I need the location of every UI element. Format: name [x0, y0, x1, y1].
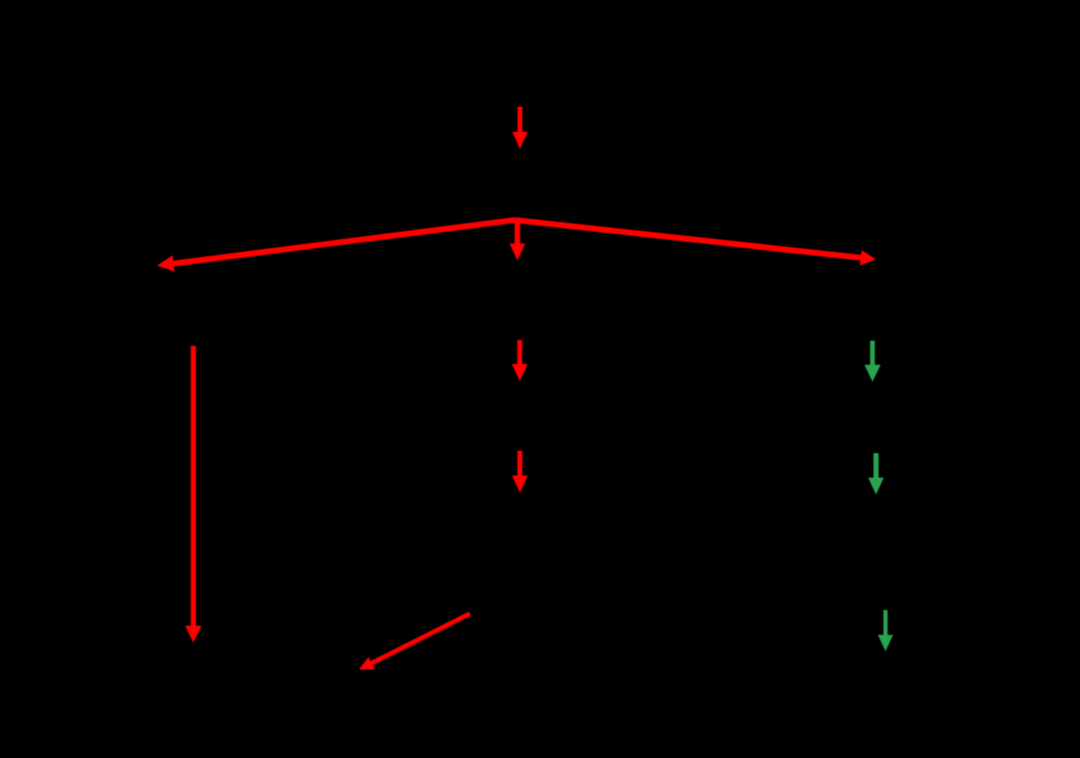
wire arrow left column long (red): [185, 346, 201, 643]
wire arrow fork center drop (red): [510, 219, 526, 261]
wire arrow fork right branch (red): [515, 220, 876, 266]
wire arrow top-center (red, down): [512, 107, 528, 149]
wire arrow center column upper (red): [512, 340, 528, 381]
wire arrow right column lower (green): [878, 610, 893, 651]
wire arrow diagonal to lower-left (red): [359, 614, 470, 670]
wire arrow right column upper (green): [864, 341, 880, 382]
wire arrow right column middle (green): [868, 453, 884, 495]
wire arrow center column lower (red): [512, 451, 528, 493]
wire arrow fork left branch (red): [157, 220, 515, 272]
